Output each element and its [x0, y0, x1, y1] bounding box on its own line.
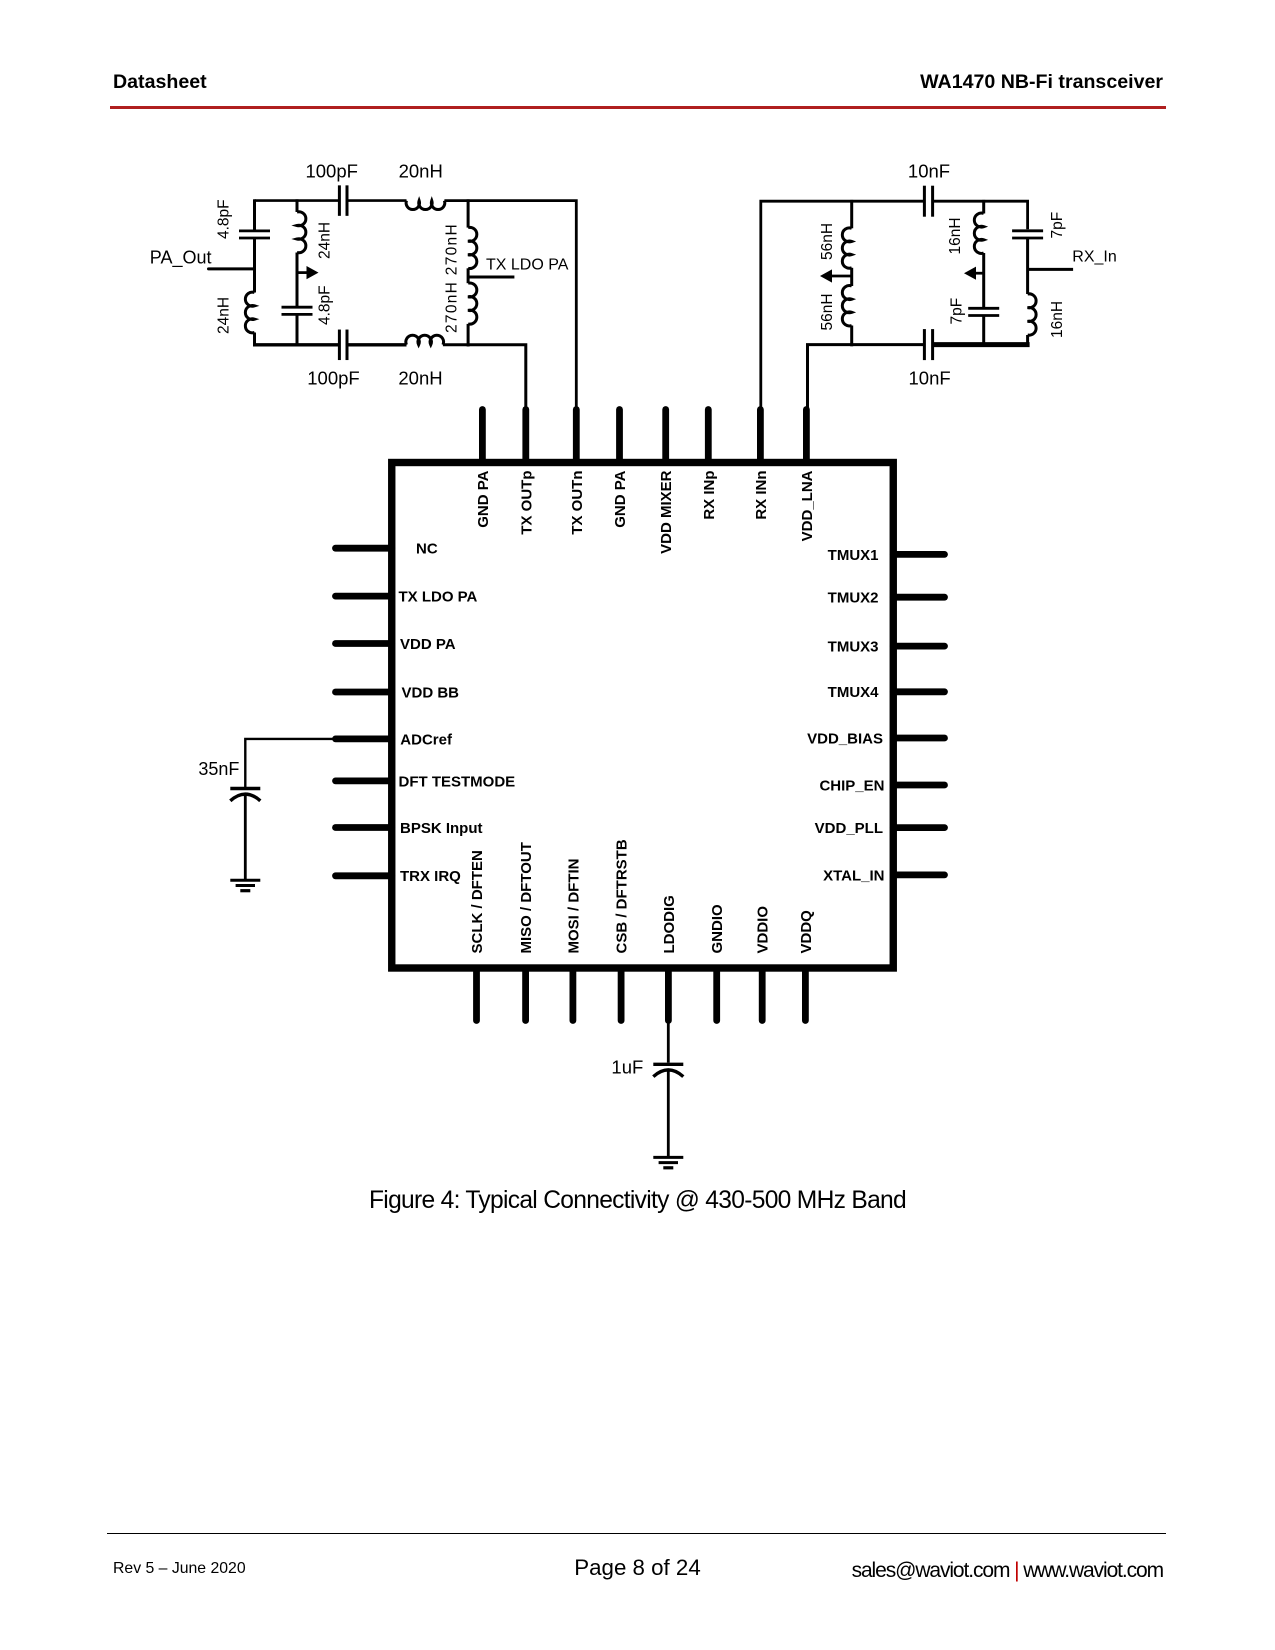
- pin ADCref (left): [336, 736, 392, 743]
- svg-text:56nH: 56nH: [819, 223, 836, 260]
- pin VDD PA (left): [336, 640, 392, 647]
- pin MISO / DFTOUT (bottom): [522, 968, 529, 1021]
- pin VDDIO (bottom): [759, 968, 766, 1021]
- inductor 16nH (RX branch2): [974, 213, 983, 253]
- arrow junction (TX branch2): [297, 271, 308, 274]
- inductor 270nH (TX branch3 lower): [468, 283, 477, 324]
- wire TX top rail left segment: [255, 199, 340, 202]
- arrow junction (RX branch1): [831, 275, 852, 278]
- svg-text:24nH: 24nH: [216, 297, 233, 334]
- wire TX bottom rail left segment: [255, 343, 340, 346]
- svg-text:GND PA: GND PA: [475, 470, 492, 527]
- wire TX branch1 mid segment (PA_Out node): [253, 238, 256, 293]
- ground (35nF): [230, 879, 260, 882]
- wire PA_Out stub: [209, 267, 255, 270]
- pin VDD_BIAS (right): [893, 735, 944, 742]
- svg-text:10nF: 10nF: [908, 161, 950, 182]
- wire 1uF capacitor to ground: [667, 1071, 670, 1156]
- pin TMUX2 (right): [893, 594, 944, 601]
- pin VDD_PLL (right): [893, 824, 944, 831]
- pin TX OUTn (top): [573, 410, 580, 463]
- inductor 20nH (TX bottom rail): [406, 335, 444, 345]
- svg-text:20nH: 20nH: [398, 368, 442, 389]
- svg-text:GNDIO: GNDIO: [709, 904, 726, 954]
- svg-text:100pF: 100pF: [305, 161, 357, 182]
- pin VDD MIXER (top): [662, 410, 669, 463]
- pin MOSI / DFTIN (bottom): [570, 968, 577, 1021]
- wire TX branch3 upper segment: [467, 199, 470, 227]
- inductor 20nH (TX top rail): [406, 201, 445, 210]
- wire RX bottom rail right segment: [933, 342, 1030, 347]
- svg-text:16nH: 16nH: [1049, 301, 1066, 338]
- svg-text:TMUX2: TMUX2: [828, 590, 879, 607]
- svg-text:MOSI / DFTIN: MOSI / DFTIN: [565, 859, 582, 954]
- svg-text:VDD PA: VDD PA: [400, 636, 456, 653]
- wire RX branch1 upper segment: [850, 200, 853, 228]
- pin GNDIO (bottom): [713, 968, 720, 1021]
- svg-text:10nF: 10nF: [909, 368, 951, 389]
- wire TX branch1 lower segment: [253, 333, 256, 347]
- pin TX OUTp (top): [522, 410, 529, 463]
- pin TMUX3 (right): [893, 643, 944, 650]
- svg-text:VDD_BIAS: VDD_BIAS: [807, 730, 883, 747]
- wire TX top rail mid segment: [347, 199, 407, 202]
- wire RX branch1 mid segment: [850, 268, 853, 286]
- svg-text:TX LDO PA: TX LDO PA: [399, 589, 478, 606]
- wire RX top rail + drop to RX INn pin: [761, 201, 925, 412]
- svg-text:TX OUTn: TX OUTn: [569, 471, 586, 535]
- svg-text:PA_Out: PA_Out: [150, 248, 212, 269]
- wire TX branch2 lower segment: [296, 314, 299, 346]
- svg-text:VDD BB: VDD BB: [402, 684, 460, 701]
- svg-text:56nH: 56nH: [819, 293, 836, 330]
- svg-text:TRX IRQ: TRX IRQ: [400, 868, 461, 885]
- wire RX branch3 mid segment (RX_In node): [1026, 238, 1029, 294]
- wire TX branch1 upper segment: [253, 199, 256, 231]
- pin GND PA (top): [616, 410, 623, 463]
- wire TX LDO PA tap: [468, 276, 514, 279]
- svg-text:TX OUTp: TX OUTp: [518, 471, 535, 535]
- svg-text:VDDQ: VDDQ: [798, 910, 815, 954]
- wire TX branch2 mid segment: [296, 253, 299, 307]
- pin TMUX1 (right): [893, 551, 944, 558]
- svg-text:DFT TESTMODE: DFT TESTMODE: [399, 773, 516, 790]
- capacitor 10nF (RX top rail): [923, 186, 926, 217]
- svg-text:270nH 270nH: 270nH 270nH: [444, 223, 461, 333]
- wire ADCref to 35nF capacitor: [245, 739, 336, 787]
- pin VDD_LNA (top): [803, 410, 810, 463]
- svg-text:VDDIO: VDDIO: [755, 906, 772, 954]
- wire LDODIG to 1uF capacitor: [667, 1019, 670, 1063]
- pin VDD BB (left): [336, 689, 392, 696]
- svg-text:7pF: 7pF: [949, 298, 966, 325]
- pin TX LDO PA (left): [336, 593, 392, 600]
- IC U1 (WA1470 transceiver) body: [392, 463, 894, 969]
- wire TX bottom rail right segment + drop to TX OUTp pin: [443, 345, 526, 412]
- svg-text:GND PA: GND PA: [612, 470, 629, 527]
- svg-text:SCLK / DFTEN: SCLK / DFTEN: [469, 850, 486, 953]
- svg-text:MISO / DFTOUT: MISO / DFTOUT: [518, 842, 535, 953]
- svg-text:4.8pF: 4.8pF: [216, 199, 233, 239]
- ground (1uF): [653, 1156, 683, 1159]
- wire RX_In stub: [1028, 268, 1074, 271]
- capacitor 1uF: [653, 1063, 683, 1066]
- pin SCLK / DFTEN (bottom): [473, 968, 480, 1021]
- svg-text:24nH: 24nH: [317, 222, 334, 259]
- svg-text:TMUX1: TMUX1: [828, 547, 879, 564]
- svg-text:1uF: 1uF: [611, 1056, 643, 1077]
- arrow junction (RX branch2): [975, 272, 984, 275]
- svg-text:VDD_LNA: VDD_LNA: [799, 470, 816, 541]
- inductor 56nH (RX branch1 upper): [842, 228, 851, 268]
- wire RX branch2 mid segment: [982, 253, 985, 307]
- svg-text:35nF: 35nF: [198, 759, 239, 779]
- wire RX top rail right segment + drop to RB3: [933, 201, 1028, 229]
- capacitor 100pF (TX top rail): [338, 185, 341, 216]
- capacitor 10nF (RX bottom rail): [923, 329, 926, 360]
- svg-text:RX INp: RX INp: [701, 471, 718, 520]
- pin XTAL_IN (right): [893, 872, 944, 879]
- svg-text:CSB / DFTRSTB: CSB / DFTRSTB: [614, 839, 631, 953]
- svg-text:4.8pF: 4.8pF: [317, 285, 334, 325]
- capacitor 7pF (RX branch3): [1012, 229, 1043, 232]
- inductor 56nH (RX branch1 lower): [842, 286, 851, 326]
- inductor 24nH (TX branch1): [245, 292, 254, 333]
- inductor 16nH (RX branch3): [1028, 294, 1037, 335]
- svg-text:ADCref: ADCref: [400, 731, 453, 748]
- wire RX branch1 lower segment: [850, 326, 853, 347]
- pin RX INp (top): [705, 410, 712, 463]
- svg-text:TX LDO PA: TX LDO PA: [486, 256, 569, 273]
- svg-text:20nH: 20nH: [399, 161, 443, 182]
- wire RX bottom rail left segment + drop to VDD_LNA pin: [808, 345, 925, 412]
- pin TRX IRQ (left): [336, 872, 392, 879]
- pin LDODIG (bottom): [665, 968, 672, 1021]
- svg-text:VDD MIXER: VDD MIXER: [658, 470, 675, 554]
- svg-text:BPSK Input: BPSK Input: [400, 820, 483, 837]
- svg-text:7pF: 7pF: [1049, 212, 1066, 239]
- wire TX bottom rail mid segment: [347, 343, 407, 346]
- svg-text:CHIP_EN: CHIP_EN: [819, 777, 884, 794]
- pin CSB / DFTRSTB (bottom): [618, 968, 625, 1021]
- svg-text:NC: NC: [416, 541, 438, 558]
- pin DFT TESTMODE (left): [336, 778, 392, 785]
- pin NC (left): [336, 545, 392, 552]
- wire TX top rail right segment + drop to TX OUTn pin: [444, 201, 576, 412]
- pin TMUX4 (right): [893, 688, 944, 695]
- capacitor 35nF: [230, 787, 260, 790]
- capacitor 4.8pF (TX branch1): [239, 229, 270, 232]
- svg-text:16nH: 16nH: [947, 217, 964, 254]
- pin CHIP_EN (right): [893, 782, 944, 789]
- wire RX branch2 upper segment: [982, 200, 985, 214]
- capacitor 100pF (TX bottom rail): [338, 330, 341, 361]
- svg-text:TMUX3: TMUX3: [828, 639, 879, 656]
- wire TX branch3 lower segment: [467, 324, 470, 347]
- svg-text:RX INn: RX INn: [753, 471, 770, 520]
- capacitor 7pF (RX branch2): [968, 307, 999, 310]
- pin BPSK Input (left): [336, 824, 392, 831]
- wire 35nF capacitor to ground: [244, 795, 247, 879]
- pin GND PA (top): [479, 410, 486, 463]
- svg-text:RX_In: RX_In: [1072, 249, 1116, 266]
- pin RX INn (top): [757, 410, 764, 463]
- wire RX branch3 lower segment: [1026, 335, 1029, 347]
- capacitor 4.8pF (TX branch2): [282, 306, 313, 309]
- wire RX branch2 lower segment: [982, 316, 985, 348]
- svg-text:VDD_PLL: VDD_PLL: [815, 820, 883, 837]
- svg-text:100pF: 100pF: [307, 368, 359, 389]
- inductor 24nH (TX branch2): [297, 212, 306, 253]
- wire TX branch2 upper segment: [296, 199, 299, 212]
- inductor 270nH (TX branch3 upper): [468, 227, 477, 268]
- svg-text:LDODIG: LDODIG: [661, 895, 678, 953]
- wire TX branch3 node segment: [467, 268, 470, 283]
- svg-text:XTAL_IN: XTAL_IN: [823, 867, 884, 884]
- svg-text:TMUX4: TMUX4: [828, 684, 879, 701]
- pin VDDQ (bottom): [802, 968, 809, 1021]
